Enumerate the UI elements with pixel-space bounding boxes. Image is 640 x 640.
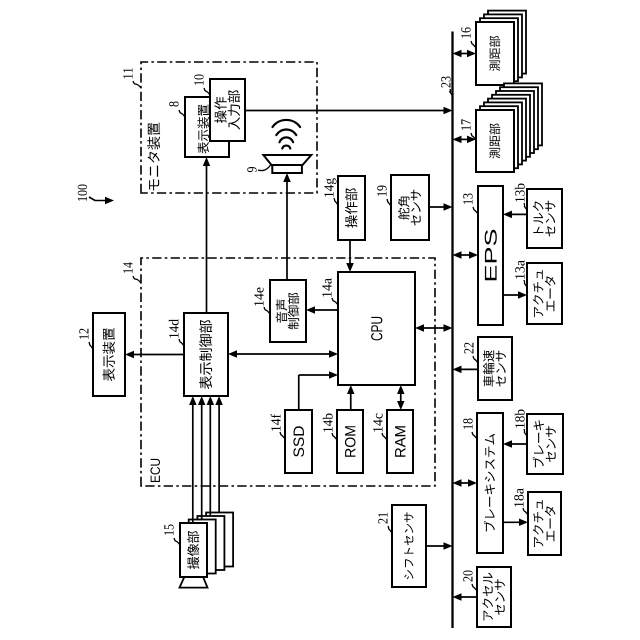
- label 8: [169, 102, 178, 107]
- wire: RAM to CPU (double arrow): [400, 391, 402, 404]
- box: actuator 18a (アクチュエータ): [528, 492, 561, 555]
- label 13: [463, 194, 472, 204]
- ranging units 17 (測距部) stack rear boxes: [504, 83, 542, 145]
- speaker 9: cone: [263, 155, 311, 165]
- label 14: [123, 262, 132, 273]
- box: steering angle sensor 19 (舵角センサ): [391, 175, 429, 240]
- wire: display control 14d to CPU (double arrow): [234, 353, 332, 355]
- box: ROM 14b: [337, 410, 363, 473]
- box: operation input 10 to bus wire: [245, 110, 447, 112]
- dash-dot box: ECU 14: [141, 258, 435, 486]
- label 14f: [271, 414, 281, 431]
- box: EPS 13: [478, 186, 503, 325]
- wire: bus to ranging 16 (double arrow): [459, 53, 471, 55]
- label 18b: [515, 410, 525, 428]
- wire: display control 14d to display device 12: [131, 354, 184, 356]
- wire: wheel speed sensor to bus: [459, 368, 479, 370]
- box: torque sensor 13b (トルクセンサ): [527, 189, 562, 248]
- wire: CPU to audio control 14e: [312, 309, 338, 311]
- label 14g: [324, 178, 336, 197]
- label 14d: [169, 319, 179, 338]
- wire: CPU to bus (double arrow): [421, 327, 447, 329]
- wire: torque sensor to EPS: [509, 213, 527, 215]
- dashed box: monitor device 11 (モニタ装置): [141, 62, 317, 193]
- camera 15 front box: [180, 523, 207, 577]
- node 23 label: [441, 77, 450, 88]
- box: operation unit 14g (操作部): [338, 176, 365, 240]
- label 10: [194, 75, 203, 85]
- label 16: [461, 27, 470, 38]
- label 17: [461, 119, 470, 130]
- wire: operation unit 14g to CPU: [349, 240, 351, 266]
- wire: display control 14d to display device 8: [206, 163, 208, 313]
- label 19: [377, 186, 386, 196]
- box: audio control 14e (音声制御部): [270, 280, 306, 342]
- box: CPU 14a: [338, 272, 415, 385]
- wire: audio control 14e to speaker 9: [286, 179, 288, 280]
- label 9: [247, 167, 256, 172]
- box: shift sensor 21 (シフトセンサ): [392, 505, 426, 587]
- box: display device 8 (表示装置): [185, 97, 229, 157]
- box: wheel speed sensor 22 (車輪速センサ): [478, 337, 512, 400]
- wire: bus to EPS (double arrow): [459, 254, 473, 256]
- box: display device 12 (表示装置): [93, 313, 125, 396]
- camera 15 lens: [180, 577, 208, 588]
- label 18a: [514, 488, 523, 507]
- box: RAM 14c: [387, 410, 413, 473]
- label 20: [463, 571, 472, 582]
- wire: shift sensor to bus: [426, 545, 447, 547]
- wire: accelerator sensor to bus: [459, 596, 478, 598]
- wire: brake system to actuator 18a: [503, 521, 522, 523]
- box: brake sensor 18b (ブレーキセンサ): [527, 414, 563, 474]
- box: accelerator sensor 20 (アクセルセンサ): [477, 567, 511, 627]
- wire: EPS to actuator 13a: [503, 294, 521, 296]
- camera stack 15 (撮像部) - rear boxes: [206, 513, 233, 567]
- ranging unit 16 front box: [476, 22, 514, 85]
- wire: cameras to display control (4 arrows): [192, 402, 194, 523]
- label 12: [79, 329, 88, 339]
- speaker 9: magnet box: [272, 165, 302, 173]
- label 22: [464, 343, 473, 354]
- overall reference 100: [78, 185, 87, 201]
- label 14b: [323, 414, 333, 432]
- wire: steering angle sensor to bus: [429, 206, 447, 208]
- box: operation input 10 (操作入力部): [210, 79, 245, 141]
- wire: ROM to CPU: [350, 391, 352, 410]
- wire: bus to ranging 17 (double arrow): [459, 138, 471, 140]
- ranging units 16 (測距部) stack rear boxes: [488, 11, 526, 74]
- speaker 9: sound wave arcs: [282, 146, 290, 149]
- ranging unit 17 front box: [476, 110, 514, 172]
- wire: SSD to CPU (bent): [298, 375, 300, 410]
- label 14c: [373, 413, 382, 431]
- box: brake system 18 (ブレーキシステム): [477, 413, 503, 553]
- label 14a: [322, 278, 331, 297]
- label 15: [164, 525, 173, 535]
- label 21: [378, 513, 387, 524]
- box: display control 14d (表示制御部): [184, 313, 228, 396]
- label 11: [123, 68, 132, 78]
- label 14e: [254, 288, 263, 306]
- label 13a: [515, 260, 524, 279]
- wire: brake sensor to brake system: [509, 443, 527, 445]
- wire: bus to brake system (double arrow): [459, 482, 472, 484]
- box: actuator 13a (アクチュエータ): [527, 263, 562, 324]
- box: SSD 14f: [285, 410, 312, 473]
- label 13b: [515, 184, 525, 202]
- label 18: [463, 419, 472, 429]
- wire: in-vehicle network bus 23: [451, 32, 453, 629]
